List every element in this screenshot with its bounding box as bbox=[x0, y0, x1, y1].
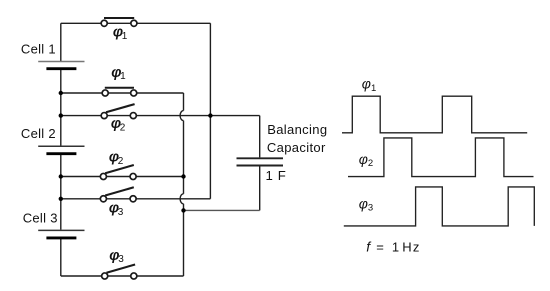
svg-text:φ3: φ3 bbox=[109, 248, 124, 265]
svg-text:φ3: φ3 bbox=[109, 201, 124, 218]
svg-text:Capacitor: Capacitor bbox=[267, 140, 326, 155]
svg-text:1F: 1F bbox=[266, 168, 286, 183]
svg-text:Balancing: Balancing bbox=[267, 122, 327, 137]
svg-text:φ1: φ1 bbox=[362, 76, 376, 94]
svg-text:Cell 2: Cell 2 bbox=[21, 126, 56, 141]
svg-text:φ2: φ2 bbox=[359, 151, 373, 169]
svg-text:f=1Hz: f=1Hz bbox=[366, 238, 421, 254]
svg-text:Cell 3: Cell 3 bbox=[23, 210, 58, 225]
svg-text:φ1: φ1 bbox=[111, 65, 126, 82]
svg-text:Cell 1: Cell 1 bbox=[21, 41, 56, 56]
svg-text:φ3: φ3 bbox=[359, 196, 373, 214]
svg-text:φ2: φ2 bbox=[111, 116, 126, 133]
svg-text:φ2: φ2 bbox=[109, 150, 124, 167]
svg-text:φ1: φ1 bbox=[113, 25, 128, 42]
